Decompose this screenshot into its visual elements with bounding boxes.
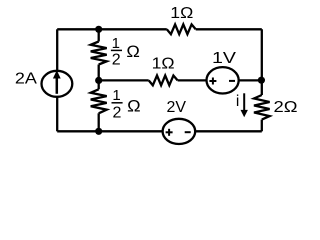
voltage source 1V (ellipse) (207, 67, 239, 93)
wire right vertical upper (261, 29, 263, 95)
wire middle rail right (239, 79, 262, 81)
resistor 1Ω top (167, 24, 196, 34)
2V plus sign (166, 129, 173, 136)
wire middle branch top stub (98, 29, 100, 41)
node D (right junction) (258, 77, 265, 84)
svg-text:2: 2 (112, 105, 121, 122)
svg-text:2: 2 (112, 52, 121, 69)
wire left vertical upper (56, 29, 58, 71)
svg-text:1V: 1V (212, 50, 237, 67)
svg-text:1: 1 (112, 87, 120, 104)
wire top-left segment (57, 28, 167, 30)
voltage source 2V (ellipse) (163, 119, 196, 144)
2V minus sign (185, 131, 191, 133)
current source 2A arrow (53, 70, 61, 94)
wire bottom-left segment (57, 130, 162, 132)
wire middle branch mid stub (98, 65, 100, 90)
resistor 2Ω (254, 95, 270, 120)
svg-text:1Ω: 1Ω (170, 5, 193, 22)
wire middle rail left (99, 79, 149, 81)
resistor ½Ω lower (91, 89, 107, 113)
wire right vertical lower (261, 120, 263, 132)
wire top-right segment (196, 28, 262, 30)
resistor 1Ω middle (149, 76, 178, 86)
svg-text:2Ω: 2Ω (274, 99, 298, 116)
svg-text:Ω: Ω (126, 42, 140, 61)
resistor ½Ω upper (91, 42, 107, 65)
wire bottom-right segment (195, 130, 262, 132)
current arrow i (down) (241, 93, 248, 117)
1V minus sign (229, 80, 235, 82)
svg-text:i: i (236, 93, 239, 110)
svg-text:1: 1 (112, 35, 120, 52)
label ½Ω lower: fraction bar (112, 102, 123, 104)
node A (top junction) (95, 26, 102, 33)
wire left vertical lower (56, 97, 58, 132)
svg-text:2A: 2A (15, 70, 38, 87)
label ½Ω upper: fraction bar (111, 49, 122, 51)
wire middle branch bottom stub (98, 113, 100, 131)
svg-text:1Ω: 1Ω (152, 56, 175, 73)
svg-text:Ω: Ω (127, 97, 141, 116)
wire middle rail to 1V (178, 79, 207, 81)
svg-text:2V: 2V (167, 99, 187, 116)
1V plus sign (209, 78, 216, 85)
node B (middle junction) (95, 77, 102, 84)
current source 2A (ellipse) (42, 71, 73, 97)
node C (bottom junction) (95, 128, 102, 135)
